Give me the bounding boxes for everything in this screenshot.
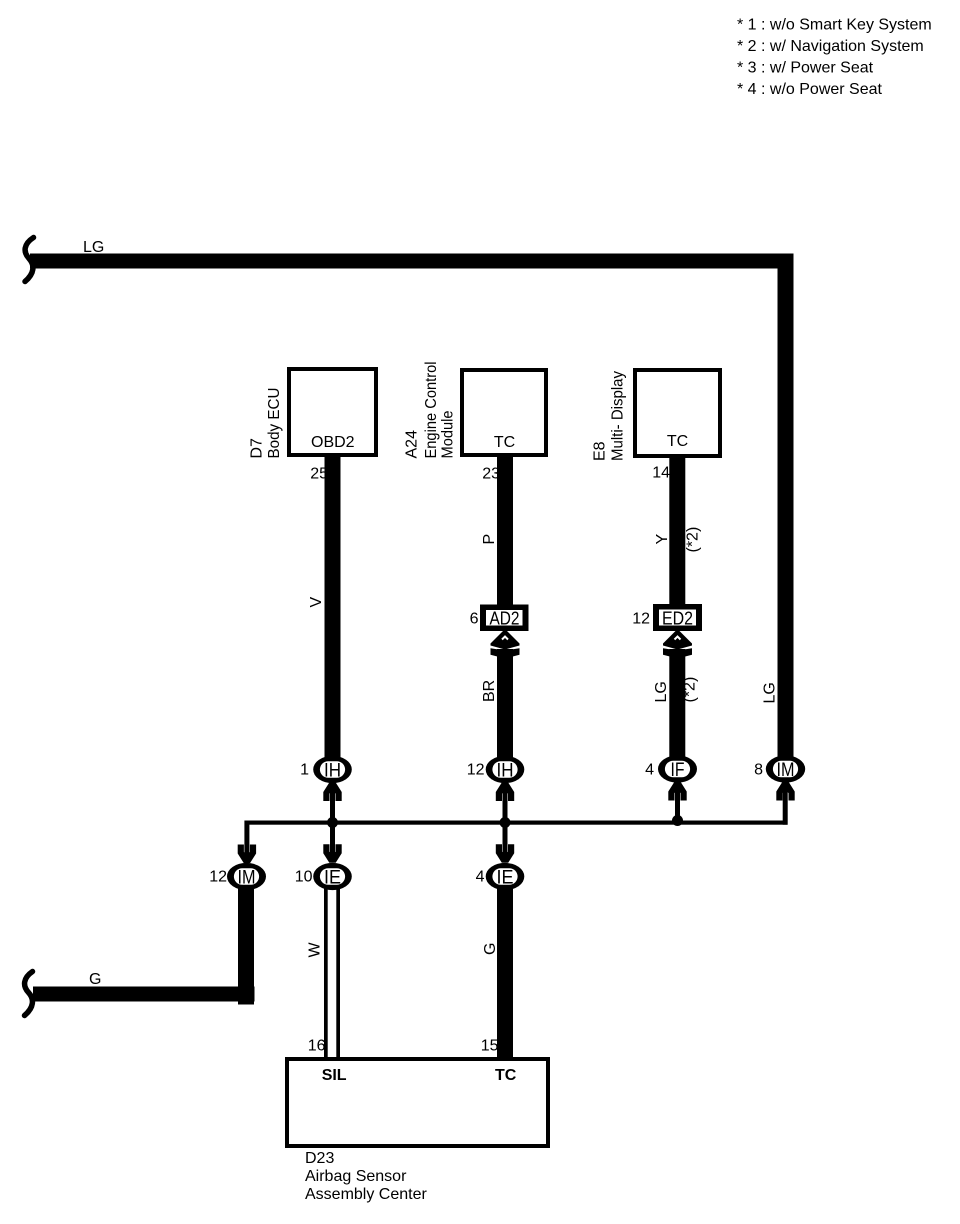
junction dot at IF4 drop bbox=[672, 815, 683, 826]
svg-text:G: G bbox=[482, 943, 499, 955]
wire LG horizontal top bbox=[30, 254, 794, 269]
arrow up into IM pin 8 bbox=[776, 782, 794, 801]
connector oval IH pin 1 bbox=[313, 756, 352, 783]
wire Y from E8 pin 14 to ED2 bbox=[669, 456, 685, 607]
svg-text:A24: A24 bbox=[404, 430, 421, 459]
svg-text:IF: IF bbox=[671, 760, 685, 781]
label LG lower bbox=[653, 681, 670, 702]
svg-text:LG: LG bbox=[653, 681, 670, 702]
arrow down into IE pin 10 bbox=[323, 844, 341, 863]
svg-text:IM: IM bbox=[777, 760, 795, 781]
label W bbox=[307, 942, 324, 958]
svg-text:6: 6 bbox=[470, 611, 479, 628]
label D7 Body ECU (rotated) bbox=[249, 438, 266, 459]
connector oval IM pin 12 bbox=[227, 863, 266, 890]
svg-text:14: 14 bbox=[652, 465, 670, 482]
connector oval IH pin 12 bbox=[486, 756, 525, 783]
wire P from A24 pin 23 to AD2 bbox=[497, 455, 513, 607]
svg-text:Body ECU: Body ECU bbox=[266, 388, 283, 459]
svg-text:15: 15 bbox=[481, 1038, 499, 1055]
connector oval IM pin 8 bbox=[766, 755, 805, 782]
svg-text:BR: BR bbox=[481, 680, 498, 702]
double chevron arrow below AD2 bbox=[491, 629, 520, 659]
wire LG (*2) from ED2 to IF pin 4 bbox=[669, 649, 685, 758]
svg-text:12: 12 bbox=[467, 762, 485, 779]
svg-text:P: P bbox=[481, 534, 498, 545]
svg-text:8: 8 bbox=[754, 762, 763, 779]
junction dot at IH1 drop bbox=[327, 817, 338, 828]
label E8 Multi- Display (rotated) bbox=[592, 441, 609, 461]
label A24 Engine Control Module (rotated) bbox=[404, 430, 421, 459]
svg-text:TC: TC bbox=[494, 434, 515, 451]
svg-text:SIL: SIL bbox=[322, 1067, 347, 1084]
connector oval IE pin 10 bbox=[313, 863, 352, 890]
svg-text:Y: Y bbox=[654, 534, 671, 545]
svg-text:1: 1 bbox=[300, 762, 309, 779]
svg-text:Assembly Center: Assembly Center bbox=[305, 1186, 427, 1203]
label (*2) lower bbox=[682, 677, 699, 703]
svg-text:* 1 : w/o Smart Key System: * 1 : w/o Smart Key System bbox=[737, 17, 932, 34]
svg-text:12: 12 bbox=[209, 869, 227, 886]
svg-text:* 4 : w/o Power Seat: * 4 : w/o Power Seat bbox=[737, 81, 883, 98]
connector oval IF pin 4 bbox=[658, 755, 697, 782]
svg-text:16: 16 bbox=[308, 1038, 326, 1055]
junction connector AD2 bbox=[480, 605, 529, 632]
svg-text:(*2): (*2) bbox=[685, 527, 702, 553]
connector box D7 Body ECU bbox=[289, 369, 376, 455]
svg-text:(*2): (*2) bbox=[682, 677, 699, 703]
wire G horizontal bottom left bbox=[33, 987, 255, 1002]
label (*2) upper bbox=[685, 527, 702, 553]
svg-text:TC: TC bbox=[495, 1067, 517, 1084]
double chevron arrow below ED2 bbox=[663, 629, 692, 659]
connector box D23 Airbag Sensor Assembly Center bbox=[287, 1059, 548, 1146]
connector oval IE pin 4 bbox=[486, 863, 525, 890]
label BR bbox=[481, 680, 498, 702]
arrow up into IF pin 4 bbox=[668, 782, 686, 801]
connector box E8 Multi-Display bbox=[635, 370, 720, 456]
label Y bbox=[654, 534, 671, 545]
svg-text:IH: IH bbox=[324, 761, 341, 782]
svg-text:D23: D23 bbox=[305, 1150, 334, 1167]
wire G thick from IM12 down bbox=[238, 888, 254, 1005]
svg-text:G: G bbox=[89, 971, 101, 988]
wire W double-line from IE10 to SIL bbox=[324, 888, 328, 1058]
wire LG vertical right bbox=[778, 254, 794, 757]
svg-text:* 2 : w/ Navigation System: * 2 : w/ Navigation System bbox=[737, 38, 924, 55]
wire-break squiggle top left bbox=[25, 238, 34, 282]
svg-text:* 3 : w/ Power Seat: * 3 : w/ Power Seat bbox=[737, 60, 874, 77]
junction dot at IH12 drop bbox=[500, 817, 511, 828]
svg-text:IM: IM bbox=[238, 868, 256, 889]
svg-text:LG: LG bbox=[83, 239, 104, 256]
bus wire horizontal bbox=[245, 821, 788, 825]
svg-text:Module: Module bbox=[440, 410, 457, 458]
arrow down into IE pin 4 bbox=[496, 844, 514, 863]
svg-text:4: 4 bbox=[476, 869, 485, 886]
wire drop from IH12 through junction bbox=[503, 788, 508, 857]
svg-text:IE: IE bbox=[324, 868, 341, 889]
svg-text:10: 10 bbox=[295, 869, 313, 886]
junction connector ED2 bbox=[653, 604, 702, 631]
svg-text:AD2: AD2 bbox=[490, 608, 520, 629]
svg-text:W: W bbox=[307, 942, 324, 958]
svg-text:TC: TC bbox=[667, 433, 688, 450]
svg-text:12: 12 bbox=[632, 611, 650, 628]
label LG right wire bbox=[762, 682, 779, 703]
connector box A24 Engine Control Module bbox=[462, 370, 546, 455]
svg-text:ED2: ED2 bbox=[662, 608, 693, 629]
label V bbox=[308, 597, 325, 608]
wire corner left of bus down to IM12 bbox=[244, 821, 249, 857]
label P bbox=[481, 534, 498, 545]
svg-text:IH: IH bbox=[497, 761, 514, 782]
wire V from D7 pin 25 to IH bbox=[325, 455, 341, 758]
svg-text:E8: E8 bbox=[592, 441, 609, 461]
label G right wire bbox=[482, 943, 499, 955]
svg-text:V: V bbox=[308, 597, 325, 608]
arrow down into IM pin 12 bbox=[238, 845, 256, 864]
svg-text:Airbag Sensor: Airbag Sensor bbox=[305, 1168, 407, 1185]
svg-text:4: 4 bbox=[645, 762, 654, 779]
arrow up into IH pin 12 bbox=[496, 783, 514, 802]
svg-text:Engine Control: Engine Control bbox=[423, 362, 440, 459]
wire drop from IH1 through junction bbox=[330, 788, 335, 857]
wire BR from AD2 to IH pin 12 bbox=[497, 649, 513, 758]
wire corner right from IM8 to bus bbox=[783, 788, 788, 825]
wire drop from IF4 to bus bbox=[675, 788, 680, 823]
arrow up into IH pin 1 bbox=[323, 783, 341, 802]
svg-text:OBD2: OBD2 bbox=[311, 434, 355, 451]
wire G from IE4 to TC pin 15 bbox=[497, 888, 513, 1058]
svg-text:D7: D7 bbox=[249, 438, 266, 459]
svg-text:LG: LG bbox=[762, 682, 779, 703]
wire-break squiggle bottom left bbox=[25, 972, 33, 1016]
svg-text:Multi- Display: Multi- Display bbox=[610, 371, 627, 461]
svg-text:IE: IE bbox=[497, 868, 514, 889]
